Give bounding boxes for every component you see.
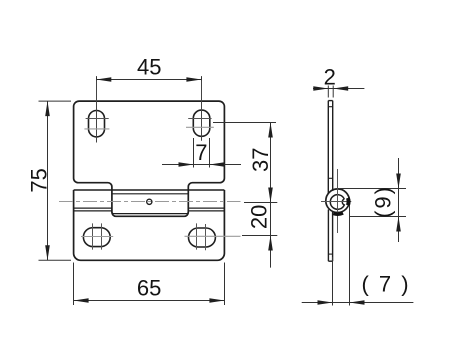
front view: bottom-right oval slot [189,228,216,247]
dimension 37/20: extension lines [213,122,276,124]
side view: lower leaf end cap line [328,253,332,255]
dimension 65: right arrow [209,298,224,303]
dimension 7: left arrow [179,162,194,167]
top-right slot lower crosshair [186,126,214,128]
dimension (7): extension lines [332,257,334,306]
dimension 2: right arrow [333,86,348,91]
svg-text:75: 75 [27,168,52,192]
top-right slot vertical centerline [201,76,203,141]
dimension 37/20: vertical line [270,123,272,268]
dimension (9): extension lines [340,188,407,190]
side view: upper leaf end cap line [328,106,332,108]
dimension 75: line [47,101,49,260]
dimension 45: line [96,79,201,81]
dimension 37: bottom arrow [268,188,273,203]
front view: tab inner bottom line [112,212,188,214]
dimension (9): top arrow [396,174,401,189]
front view: left side curl bottom lines [74,207,112,209]
side view: upper leaf curl tick [328,177,332,179]
front view: top-left slot [89,111,105,137]
bottom-left oval horizontal centerline [81,236,113,238]
dimension (7): line [302,302,414,304]
side view: upper leaf [327,101,329,194]
front view: bottom-left oval slot [83,228,110,247]
dimension 2: line [313,88,364,90]
front view: tab inner top line [112,193,188,195]
dimension (9): bottom arrow [396,217,401,232]
dimension (9): vertical line [398,158,400,242]
svg-text:( 7 ): ( 7 ) [361,272,410,297]
svg-text:7: 7 [195,140,207,165]
dimension 45: extension lines [96,76,98,80]
dimension 75: top arrow [45,101,50,116]
dimension 2: left arrow [313,86,328,91]
front view: bottom leaf outline [74,190,225,260]
dimension 2: extension lines [327,86,329,98]
dimension 37: top arrow [268,123,273,138]
svg-text:(9): (9) [371,185,396,218]
top-left slot lower crosshair [84,128,109,130]
front view: top leaf outline [74,101,225,216]
dimension 7: extension lines [193,138,195,168]
dimension 20: bottom arrow [268,236,273,251]
front view: pin hole [147,199,152,204]
front view: right side curl bottom lines [188,207,224,209]
side view: lower leaf [327,210,329,262]
side view: circle horizontal centerline [321,201,351,203]
dimension 65: left arrow [74,298,89,303]
svg-text:37: 37 [248,147,273,171]
side view: thick bottom mark [333,213,343,214]
dimension 75: extension lines [39,100,72,102]
dimension 75: bottom arrow [45,245,50,260]
dimension 7: right arrow [210,162,225,167]
side view: circle vertical centerline [337,169,339,233]
dimension 7: line [162,164,241,166]
svg-text:65: 65 [137,275,161,300]
front view: top-right slot [193,110,210,136]
dimension 65: line [74,300,225,302]
bottom-left oval vertical crosshairs [92,223,94,249]
dimension 45: left arrow [96,77,111,82]
bottom-right oval horizontal centerline [185,235,241,237]
side view: knuckle inner circle with pin notch [330,195,344,210]
dimension 65: extension lines [73,263,75,306]
dimension 45: right arrow [186,77,201,82]
top-left slot vertical centerline [96,76,98,142]
front view: pin axis dashed centerline [59,201,241,203]
svg-text:20: 20 [247,205,272,229]
top-left slot upper crosshair [86,118,109,120]
dimension (7): left arrow [318,300,333,305]
bottom-right oval vertical crosshairs [196,223,198,249]
svg-text:45: 45 [137,54,161,79]
side view: knuckle outer circle [326,189,350,213]
top-right slot upper crosshair [188,118,211,120]
side view: thick right mark [346,198,351,205]
svg-text:2: 2 [324,64,336,89]
dimension (7): right arrow [350,300,365,305]
front view: knuckle band top edge [74,189,225,191]
